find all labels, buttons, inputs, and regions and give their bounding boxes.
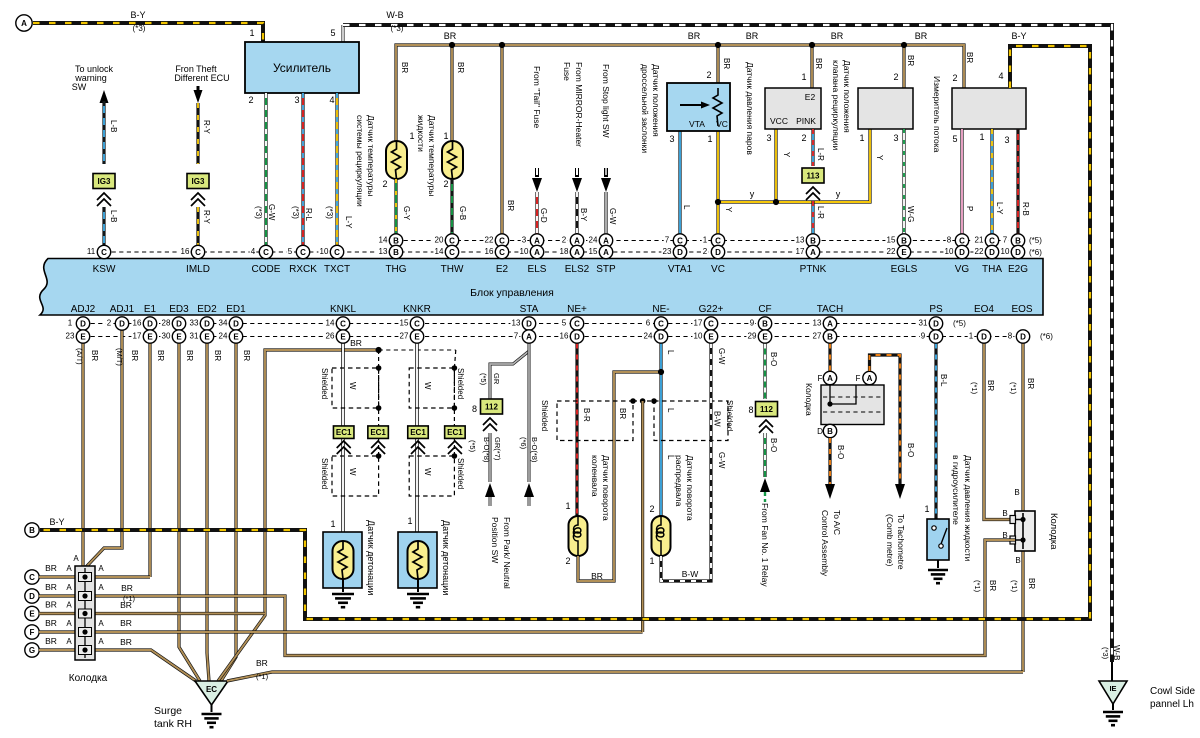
svg-text:жидкости: жидкости — [416, 115, 426, 152]
svg-text:E: E — [147, 332, 153, 341]
svg-text:13: 13 — [379, 247, 388, 256]
svg-text:Cowl Side: Cowl Side — [1150, 686, 1195, 697]
svg-text:G-W: G-W — [608, 208, 617, 225]
svg-text:R-Y: R-Y — [202, 120, 211, 134]
svg-text:E: E — [414, 332, 420, 341]
svg-text:2: 2 — [248, 95, 253, 105]
svg-text:G-D: G-D — [539, 208, 548, 223]
svg-text:STA: STA — [520, 304, 539, 315]
svg-text:BR: BR — [988, 580, 997, 591]
svg-text:IG3: IG3 — [98, 177, 111, 186]
svg-text:G-W: G-W — [717, 348, 726, 365]
svg-text:L-R: L-R — [816, 148, 825, 161]
svg-text:RXCK: RXCK — [289, 264, 317, 275]
svg-text:Колодка: Колодка — [69, 673, 108, 684]
svg-text:A: A — [66, 637, 72, 646]
svg-text:G: G — [29, 646, 35, 655]
svg-text:A: A — [73, 554, 79, 563]
svg-text:112: 112 — [760, 405, 773, 414]
svg-text:D: D — [233, 319, 239, 328]
svg-text:22: 22 — [975, 247, 984, 256]
svg-text:BR: BR — [831, 31, 844, 41]
svg-text:13: 13 — [813, 319, 822, 328]
svg-text:BR: BR — [45, 582, 57, 592]
svg-text:L-R: L-R — [816, 206, 825, 219]
svg-text:ELS: ELS — [528, 264, 547, 275]
svg-text:Колодка: Колодка — [804, 383, 814, 416]
svg-text:A: A — [603, 248, 609, 257]
svg-text:(*5): (*5) — [953, 319, 966, 328]
svg-text:W-B: W-B — [386, 10, 403, 20]
svg-text:BR: BR — [185, 350, 194, 361]
svg-text:W: W — [348, 382, 357, 390]
svg-text:BR: BR — [121, 583, 133, 593]
svg-text:A: A — [603, 236, 609, 245]
svg-text:10: 10 — [1001, 247, 1010, 256]
svg-text:C: C — [658, 319, 664, 328]
svg-text:ED1: ED1 — [226, 304, 246, 315]
svg-text:Датчик детонации: Датчик детонации — [366, 520, 376, 595]
svg-text:29: 29 — [748, 332, 757, 341]
svg-text:THA: THA — [982, 264, 1002, 275]
svg-text:34: 34 — [219, 319, 228, 328]
svg-text:(*3): (*3) — [325, 206, 334, 219]
svg-text:B: B — [901, 236, 907, 245]
svg-text:W: W — [423, 382, 432, 390]
svg-text:THG: THG — [385, 264, 406, 275]
svg-text:E: E — [901, 248, 907, 257]
svg-text:26: 26 — [326, 332, 335, 341]
svg-text:B: B — [1015, 556, 1020, 565]
svg-text:5: 5 — [288, 247, 293, 256]
svg-text:2: 2 — [443, 179, 448, 189]
svg-text:Shielded: Shielded — [456, 458, 465, 489]
svg-text:G-Y: G-Y — [402, 206, 411, 221]
svg-text:9: 9 — [750, 319, 755, 328]
svg-text:From "Tail" Fuse: From "Tail" Fuse — [532, 66, 542, 129]
svg-text:B: B — [762, 319, 768, 328]
svg-text:L: L — [666, 408, 675, 413]
svg-text:Different ECU: Different ECU — [174, 73, 229, 83]
svg-text:G-B: G-B — [458, 206, 467, 220]
svg-text:GR: GR — [492, 373, 501, 385]
svg-text:BR: BR — [1026, 378, 1035, 389]
svg-text:D: D — [989, 248, 995, 257]
svg-text:C: C — [499, 248, 505, 257]
svg-text:CF: CF — [758, 304, 771, 315]
svg-text:(*6): (*6) — [1040, 332, 1053, 341]
svg-text:16: 16 — [485, 247, 494, 256]
svg-text:D: D — [1020, 332, 1026, 341]
svg-text:D: D — [80, 319, 86, 328]
svg-text:системы рециркуляции: системы рециркуляции — [355, 115, 365, 207]
svg-text:10: 10 — [520, 247, 529, 256]
svg-text:8: 8 — [1008, 332, 1013, 341]
svg-text:E: E — [233, 332, 239, 341]
svg-text:112: 112 — [485, 403, 498, 412]
svg-text:7: 7 — [1003, 236, 1008, 245]
svg-text:BR: BR — [45, 600, 57, 610]
svg-text:A: A — [66, 619, 72, 628]
svg-text:22: 22 — [887, 247, 896, 256]
svg-text:(*5): (*5) — [1029, 236, 1042, 245]
svg-text:5: 5 — [562, 319, 567, 328]
svg-text:IMLD: IMLD — [186, 264, 210, 275]
svg-text:(*5): (*5) — [468, 440, 477, 453]
svg-text:E: E — [340, 332, 346, 341]
svg-text:D: D — [658, 332, 664, 341]
svg-text:11: 11 — [87, 247, 96, 256]
svg-text:L: L — [666, 455, 675, 460]
svg-text:PTNK: PTNK — [800, 264, 827, 275]
svg-text:pannel Lh: pannel Lh — [1150, 699, 1194, 710]
svg-text:(*3): (*3) — [133, 24, 146, 33]
svg-text:1: 1 — [443, 131, 448, 141]
svg-text:16: 16 — [133, 319, 142, 328]
svg-text:D: D — [1015, 248, 1021, 257]
svg-text:BR: BR — [120, 637, 132, 647]
svg-text:B-W: B-W — [713, 411, 722, 427]
svg-text:4: 4 — [251, 247, 256, 256]
svg-text:1: 1 — [407, 516, 412, 526]
svg-text:в гидроусилителе: в гидроусилителе — [951, 455, 961, 525]
svg-text:A: A — [534, 248, 540, 257]
svg-text:L-Y: L-Y — [995, 202, 1004, 215]
svg-text:BR: BR — [156, 350, 165, 361]
svg-text:3: 3 — [893, 133, 898, 143]
svg-text:30: 30 — [162, 332, 171, 341]
svg-text:R-L: R-L — [304, 208, 313, 221]
svg-text:EC1: EC1 — [410, 428, 426, 437]
svg-text:Shielded: Shielded — [540, 400, 549, 431]
svg-text:Измеритель потока: Измеритель потока — [932, 76, 942, 153]
svg-text:KSW: KSW — [93, 264, 116, 275]
svg-text:коленвала: коленвала — [590, 455, 600, 497]
svg-text:Shielded: Shielded — [725, 400, 734, 431]
svg-text:BR: BR — [915, 31, 928, 41]
svg-text:Усилитель: Усилитель — [273, 61, 331, 75]
svg-text:EC: EC — [206, 685, 217, 694]
svg-text:SW: SW — [72, 82, 87, 92]
svg-text:BR: BR — [120, 618, 132, 628]
svg-text:D: D — [933, 332, 939, 341]
svg-text:E: E — [762, 332, 768, 341]
svg-text:(*5): (*5) — [479, 373, 488, 386]
svg-text:8: 8 — [472, 404, 477, 414]
svg-text:D: D — [29, 592, 35, 601]
svg-text:BR: BR — [1027, 578, 1036, 589]
svg-text:(*3): (*3) — [254, 206, 263, 219]
svg-text:E2G: E2G — [1008, 264, 1028, 275]
svg-text:PS: PS — [929, 304, 943, 315]
svg-text:NE-: NE- — [652, 304, 669, 315]
svg-text:24: 24 — [589, 236, 598, 245]
svg-text:B-Y: B-Y — [130, 10, 145, 20]
svg-text:B: B — [1014, 488, 1019, 497]
svg-text:6: 6 — [646, 319, 651, 328]
svg-text:24: 24 — [644, 332, 653, 341]
svg-text:tank RH: tank RH — [154, 718, 192, 730]
svg-text:BR: BR — [45, 636, 57, 646]
svg-text:9: 9 — [921, 332, 926, 341]
svg-text:E2: E2 — [496, 264, 509, 275]
svg-text:B-Y: B-Y — [49, 517, 64, 527]
svg-text:31: 31 — [919, 319, 928, 328]
svg-text:E: E — [80, 332, 86, 341]
svg-text:A: A — [21, 19, 27, 28]
svg-text:1: 1 — [409, 131, 414, 141]
svg-text:BR: BR — [350, 338, 362, 348]
svg-text:18: 18 — [560, 247, 569, 256]
svg-text:10: 10 — [945, 247, 954, 256]
svg-text:1: 1 — [969, 332, 974, 341]
svg-text:BR: BR — [722, 58, 731, 69]
svg-text:3: 3 — [1004, 135, 1009, 145]
svg-text:16: 16 — [560, 332, 569, 341]
svg-text:D: D — [526, 319, 532, 328]
svg-text:2: 2 — [893, 72, 898, 82]
svg-text:F: F — [30, 628, 35, 637]
svg-text:Колодка: Колодка — [1048, 513, 1059, 550]
svg-text:2: 2 — [565, 556, 570, 566]
svg-text:Y: Y — [724, 207, 733, 213]
svg-text:From Fan No. 1 Relay: From Fan No. 1 Relay — [760, 503, 770, 587]
svg-text:BR: BR — [400, 62, 409, 73]
svg-text:(*6): (*6) — [519, 437, 528, 450]
svg-text:B: B — [810, 236, 816, 245]
svg-text:IG3: IG3 — [192, 177, 205, 186]
svg-text:W: W — [423, 468, 432, 476]
svg-text:A: A — [66, 583, 72, 592]
svg-text:D: D — [677, 248, 683, 257]
svg-text:10: 10 — [694, 332, 703, 341]
svg-text:A: A — [574, 248, 580, 257]
svg-text:1: 1 — [979, 132, 984, 142]
svg-text:BR: BR — [45, 618, 57, 628]
svg-text:(*1): (*1) — [970, 382, 979, 395]
svg-text:R-Y: R-Y — [202, 210, 211, 224]
svg-text:15: 15 — [887, 236, 896, 245]
svg-text:D: D — [119, 319, 125, 328]
svg-text:D: D — [204, 319, 210, 328]
svg-text:BR: BR — [256, 658, 268, 668]
svg-text:Y: Y — [782, 152, 791, 158]
svg-text:G22+: G22+ — [699, 304, 724, 315]
svg-text:A: A — [66, 564, 72, 573]
svg-text:B: B — [827, 427, 833, 436]
svg-text:To A/C: To A/C — [832, 510, 842, 535]
svg-text:1: 1 — [249, 28, 254, 38]
svg-text:VTA1: VTA1 — [668, 264, 693, 275]
svg-text:VTA: VTA — [689, 119, 705, 129]
svg-text:P: P — [965, 206, 974, 211]
svg-text:KNKL: KNKL — [330, 304, 357, 315]
svg-text:13: 13 — [512, 319, 521, 328]
svg-text:15: 15 — [589, 247, 598, 256]
svg-text:2: 2 — [107, 319, 112, 328]
svg-text:D: D — [574, 332, 580, 341]
svg-text:EOS: EOS — [1011, 304, 1032, 315]
svg-text:2: 2 — [382, 179, 387, 189]
svg-text:3: 3 — [522, 236, 527, 245]
svg-text:BR: BR — [120, 600, 132, 610]
svg-text:Control Assembly: Control Assembly — [820, 510, 830, 577]
svg-text:B-O: B-O — [769, 438, 778, 452]
svg-text:B-W: B-W — [682, 569, 699, 579]
svg-text:TXCT: TXCT — [324, 264, 350, 275]
svg-text:20: 20 — [435, 236, 444, 245]
svg-text:R-B: R-B — [1021, 202, 1030, 216]
svg-text:1: 1 — [707, 134, 712, 144]
svg-text:BR: BR — [45, 563, 57, 573]
svg-text:(*1): (*1) — [973, 580, 982, 593]
svg-text:EO4: EO4 — [974, 304, 994, 315]
svg-text:E: E — [204, 332, 210, 341]
svg-text:14: 14 — [326, 319, 335, 328]
svg-text:Датчик поворота: Датчик поворота — [685, 455, 695, 521]
svg-text:B-O: B-O — [769, 352, 778, 366]
svg-text:A: A — [98, 583, 104, 592]
svg-text:5: 5 — [952, 134, 957, 144]
svg-text:24: 24 — [219, 332, 228, 341]
svg-text:7: 7 — [514, 332, 519, 341]
svg-text:L: L — [682, 205, 691, 210]
svg-text:C: C — [677, 236, 683, 245]
svg-text:BR: BR — [213, 350, 222, 361]
svg-text:14: 14 — [435, 247, 444, 256]
svg-text:Y: Y — [875, 155, 884, 161]
svg-text:C: C — [989, 236, 995, 245]
svg-text:3: 3 — [766, 133, 771, 143]
svg-text:B-O(*8): B-O(*8) — [482, 437, 491, 463]
svg-text:D: D — [959, 248, 965, 257]
svg-text:E2: E2 — [805, 92, 816, 102]
svg-text:EC1: EC1 — [447, 428, 463, 437]
svg-text:17: 17 — [796, 247, 805, 256]
svg-text:TACH: TACH — [817, 304, 843, 315]
svg-text:(Comb metre): (Comb metre) — [885, 514, 895, 567]
svg-text:Surge: Surge — [154, 705, 182, 717]
svg-text:B: B — [393, 248, 399, 257]
svg-text:14: 14 — [379, 236, 388, 245]
svg-text:23: 23 — [66, 332, 75, 341]
svg-text:A: A — [827, 374, 833, 383]
svg-text:Блок управления: Блок управления — [470, 287, 554, 299]
svg-text:C: C — [449, 248, 455, 257]
svg-text:To Tachometre: To Tachometre — [896, 514, 906, 570]
svg-text:From MIRROR-Heater: From MIRROR-Heater — [574, 62, 584, 147]
svg-text:W-G: W-G — [906, 206, 915, 222]
svg-text:33: 33 — [190, 319, 199, 328]
svg-text:Shielded: Shielded — [320, 368, 329, 399]
svg-text:C: C — [340, 319, 346, 328]
svg-text:28: 28 — [162, 319, 171, 328]
svg-text:A: A — [827, 319, 833, 328]
svg-text:A: A — [526, 332, 532, 341]
svg-text:(*1): (*1) — [1010, 580, 1019, 593]
svg-text:E1: E1 — [144, 304, 157, 315]
svg-text:E: E — [29, 609, 35, 618]
svg-text:2: 2 — [952, 73, 957, 83]
svg-text:A: A — [810, 248, 816, 257]
svg-text:B-L: B-L — [939, 374, 948, 387]
svg-text:Датчик давления паров: Датчик давления паров — [745, 62, 755, 155]
svg-text:G-W: G-W — [717, 452, 726, 469]
svg-text:C: C — [414, 319, 420, 328]
svg-text:L-B: L-B — [109, 210, 118, 222]
svg-text:Датчик положения: Датчик положения — [842, 60, 852, 133]
svg-text:17: 17 — [133, 332, 142, 341]
svg-text:Датчик температуры: Датчик температуры — [427, 115, 437, 196]
svg-text:4: 4 — [329, 95, 334, 105]
svg-text:y: y — [750, 189, 755, 199]
svg-text:From Park/ Neutral: From Park/ Neutral — [502, 517, 512, 589]
svg-text:D: D — [933, 319, 939, 328]
svg-text:B: B — [1002, 509, 1007, 518]
svg-text:4: 4 — [998, 71, 1003, 81]
svg-text:(*6): (*6) — [1029, 248, 1042, 257]
svg-text:BR: BR — [591, 571, 603, 581]
svg-text:(*3): (*3) — [291, 206, 300, 219]
svg-text:EC1: EC1 — [370, 428, 386, 437]
svg-text:Shielded: Shielded — [456, 368, 465, 399]
svg-text:B-R: B-R — [582, 408, 591, 422]
svg-text:C: C — [263, 248, 269, 257]
svg-text:STP: STP — [596, 264, 616, 275]
svg-text:8: 8 — [947, 236, 952, 245]
svg-text:BR: BR — [986, 380, 995, 391]
svg-text:5: 5 — [330, 28, 335, 38]
svg-text:22: 22 — [485, 236, 494, 245]
svg-text:B: B — [29, 526, 35, 535]
svg-text:27: 27 — [813, 332, 822, 341]
svg-text:F: F — [856, 374, 861, 383]
svg-text:ELS2: ELS2 — [565, 264, 590, 275]
svg-text:BR: BR — [506, 200, 515, 211]
svg-text:2: 2 — [801, 133, 806, 143]
svg-text:1: 1 — [68, 319, 73, 328]
svg-text:ADJ2: ADJ2 — [71, 304, 96, 315]
svg-text:GR(*7): GR(*7) — [493, 437, 502, 461]
svg-text:A: A — [66, 601, 72, 610]
svg-text:C: C — [708, 319, 714, 328]
svg-text:L: L — [666, 350, 675, 355]
svg-text:W: W — [348, 468, 357, 476]
svg-text:VG: VG — [955, 264, 970, 275]
svg-text:ED3: ED3 — [169, 304, 189, 315]
svg-text:2: 2 — [706, 70, 711, 80]
svg-text:IE: IE — [1109, 684, 1116, 693]
svg-text:2: 2 — [649, 504, 654, 514]
svg-text:A: A — [98, 637, 104, 646]
svg-text:C: C — [195, 248, 201, 257]
svg-text:Fuse: Fuse — [562, 62, 572, 81]
svg-text:3: 3 — [669, 134, 674, 144]
svg-text:B-Y: B-Y — [579, 208, 588, 222]
svg-text:VCC: VCC — [770, 116, 788, 126]
svg-text:VC: VC — [716, 119, 728, 129]
svg-text:1: 1 — [859, 133, 864, 143]
svg-text:D: D — [147, 319, 153, 328]
svg-text:EGLS: EGLS — [891, 264, 918, 275]
svg-text:A: A — [867, 374, 873, 383]
svg-text:ADJ1: ADJ1 — [110, 304, 135, 315]
svg-text:A: A — [98, 619, 104, 628]
svg-text:B: B — [827, 332, 833, 341]
svg-text:CODE: CODE — [252, 264, 281, 275]
svg-text:клапана рециркуляции: клапана рециркуляции — [831, 60, 841, 150]
svg-text:(*3): (*3) — [1101, 647, 1110, 660]
